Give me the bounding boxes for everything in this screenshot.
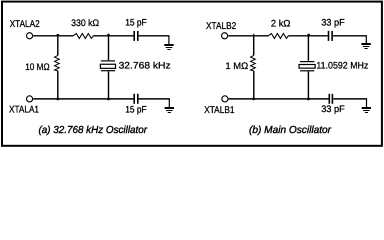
wire node F to X2 — [307, 36, 309, 61]
wire X1 to node D — [108, 71, 110, 99]
junction node F — [308, 34, 310, 36]
svg-text:(a) 32.768 kHz Oscillator: (a) 32.768 kHz Oscillator — [39, 125, 148, 136]
capacitor C2 plate left — [133, 94, 135, 104]
svg-text:15 pF: 15 pF — [125, 105, 147, 116]
capacitor C1 plate right — [137, 31, 139, 41]
resistor R4 — [251, 55, 256, 71]
junction node C — [56, 98, 59, 101]
wire C4 to ground G4 — [333, 98, 367, 100]
svg-text:2 kΩ: 2 kΩ — [271, 19, 291, 30]
terminal XTALB2 — [222, 33, 228, 39]
wire R4 to node G — [253, 71, 255, 99]
junction node A — [56, 34, 59, 37]
wire XTALA2 to R1 — [33, 35, 73, 37]
junction node D — [107, 98, 110, 101]
wire X2 to node H — [307, 72, 309, 99]
resistor R2 — [268, 34, 288, 39]
capacitor C3 plate right — [331, 31, 333, 41]
svg-text:11.0592 MHz: 11.0592 MHz — [316, 60, 368, 71]
svg-text:1 MΩ: 1 MΩ — [225, 61, 248, 72]
wire node A to R3 — [57, 36, 59, 56]
terminal XTALA2 — [27, 33, 33, 39]
wire XTALA1 to C2 — [33, 98, 133, 100]
capacitor C4 plate left — [328, 94, 330, 104]
capacitor C3 plate left — [328, 31, 330, 41]
junction node B — [108, 34, 110, 36]
svg-text:XTALA2: XTALA2 — [10, 19, 40, 30]
crystal X2 — [299, 62, 315, 71]
ground G4 — [362, 99, 371, 113]
svg-text:330 kΩ: 330 kΩ — [71, 18, 99, 29]
terminal XTALA1 — [27, 96, 33, 102]
wire R3 to node C — [57, 71, 59, 99]
capacitor C4 plate right — [331, 94, 333, 104]
wire C1 to ground G1 — [139, 35, 170, 37]
wire R1 to C1 — [93, 35, 133, 37]
wire XTALB2 to R2 — [228, 35, 268, 37]
terminal XTALB1 — [222, 96, 228, 102]
resistor R3 — [55, 55, 60, 71]
capacitor C1 plate left — [133, 31, 135, 41]
wire XTALB1 to C4 — [229, 98, 329, 100]
junction node G — [252, 98, 255, 101]
junction node H — [307, 98, 310, 101]
svg-text:33 pF: 33 pF — [321, 104, 345, 115]
svg-text:XTALA1: XTALA1 — [9, 105, 39, 116]
junction node E — [253, 34, 255, 36]
ground G2 — [165, 99, 174, 113]
wire node B to X1 — [108, 36, 110, 60]
svg-text:32.768 kHz: 32.768 kHz — [119, 61, 171, 72]
svg-text:XTALB1: XTALB1 — [204, 105, 234, 116]
wire C3 to ground G3 — [333, 35, 367, 37]
svg-text:XTALB2: XTALB2 — [206, 21, 236, 32]
svg-text:10 MΩ: 10 MΩ — [25, 62, 50, 73]
wire R2 to C3 — [288, 35, 327, 37]
svg-text:15 pF: 15 pF — [125, 17, 147, 28]
resistor R1 — [73, 34, 93, 39]
svg-text:(b) Main Oscillator: (b) Main Oscillator — [249, 125, 332, 136]
wire C2 to ground G2 — [139, 98, 170, 100]
crystal X1 — [100, 61, 115, 71]
capacitor C2 plate right — [137, 94, 139, 104]
wire node E to R4 — [253, 36, 255, 56]
svg-text:33 pF: 33 pF — [321, 18, 345, 29]
ground G3 — [361, 36, 370, 49]
ground G1 — [164, 36, 173, 50]
